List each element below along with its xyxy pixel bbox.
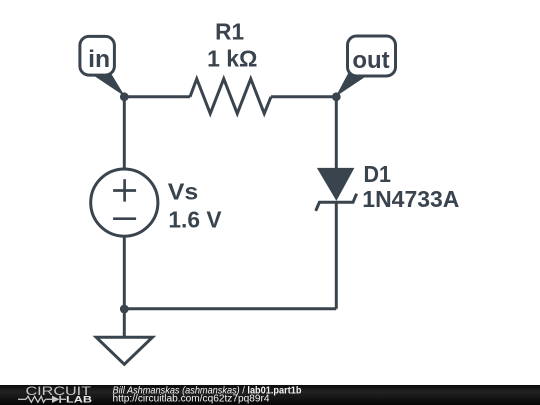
svg-text:http://circuitlab.com/cq62tz7p: http://circuitlab.com/cq62tz7pq89r4	[113, 393, 270, 404]
svg-text:1N4733A: 1N4733A	[362, 186, 459, 212]
wire right vertical lower (D1 to bottom wire)	[335, 202, 338, 308]
node junction right-top	[332, 92, 341, 101]
svg-text:1.6 V: 1.6 V	[168, 207, 222, 233]
CircuitLab logo schematic squiggle	[18, 396, 66, 403]
zener diode D1	[316, 161, 460, 212]
wire left vertical upper (in node to Vs)	[123, 97, 126, 170]
wire top-right (R1 to out node)	[271, 95, 336, 98]
wire top-left (in node to R1)	[124, 95, 190, 98]
node label "out"	[336, 36, 396, 97]
wire left vertical lower (Vs to bottom node)	[123, 236, 126, 309]
voltage source Vs	[91, 169, 223, 236]
svg-text:in: in	[88, 46, 110, 73]
node junction bottom (ground)	[120, 305, 129, 314]
svg-text:LAB: LAB	[66, 394, 93, 404]
wire ground stub	[123, 309, 126, 337]
svg-text:out: out	[352, 47, 389, 74]
ground	[96, 337, 152, 364]
svg-text:R1: R1	[215, 19, 244, 45]
node junction left-top	[120, 92, 129, 101]
wire bottom horizontal	[124, 307, 336, 310]
svg-text:1 kΩ: 1 kΩ	[207, 45, 257, 71]
wire right vertical upper (out node to D1)	[335, 97, 338, 170]
svg-text:D1: D1	[364, 161, 392, 187]
resistor R1	[190, 19, 271, 114]
node label "in"	[80, 36, 125, 96]
svg-text:Vs: Vs	[168, 179, 199, 205]
